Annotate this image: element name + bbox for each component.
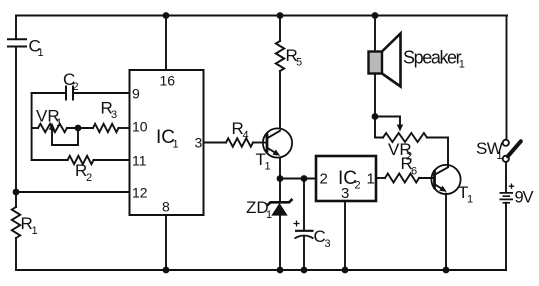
svg-text:1: 1 [266, 209, 272, 221]
switch SW1 [476, 139, 521, 162]
battery 9V [500, 184, 534, 207]
resistor R5 [276, 16, 302, 72]
transistor T2 (labelled T1) [431, 165, 473, 206]
node ZD1 bottom rail [277, 267, 284, 274]
zener diode ZD1 [246, 179, 293, 271]
node VR1 wiper junction [75, 125, 82, 132]
potentiometer VR1 [32, 107, 78, 146]
svg-text:8: 8 [162, 199, 170, 215]
svg-text:1: 1 [173, 139, 179, 151]
svg-text:2: 2 [73, 81, 79, 93]
svg-text:4: 4 [243, 130, 249, 142]
node pin12 / left rail junction [13, 189, 20, 196]
potentiometer VR2 [375, 117, 427, 163]
wire IC1 pin 8 to bottom rail [165, 215, 167, 270]
wire speaker to VR2 junction [374, 74, 376, 117]
timer IC2 [316, 156, 376, 201]
svg-text:12: 12 [132, 185, 148, 201]
wire C2 row (pin 9 net) [32, 92, 130, 94]
wire top supply rail [16, 15, 507, 17]
resistor R1 [12, 207, 38, 238]
svg-text:Speaker: Speaker [403, 48, 462, 68]
node VR2 junction [372, 113, 379, 120]
transistor T1 [256, 128, 293, 172]
svg-text:1: 1 [56, 117, 62, 129]
wire sub-loop left vertical [31, 93, 33, 160]
node IC2 pin3 bottom rail [342, 267, 349, 274]
svg-text:9: 9 [132, 86, 140, 102]
wire IC2 pin 3 to bottom rail [344, 201, 346, 270]
wire T1 emitter down [279, 158, 281, 179]
wire emitter junction to IC2 pin 2 [280, 178, 316, 180]
svg-text:3: 3 [111, 109, 117, 121]
svg-text:1: 1 [459, 59, 465, 71]
svg-text:1: 1 [367, 171, 375, 188]
capacitor C1 [7, 37, 44, 60]
wire R3 to IC1 pin 10 [119, 127, 130, 129]
op-amp/timer IC1 [130, 70, 204, 215]
wire R2 row (pin 11 net) [32, 159, 130, 161]
svg-text:2: 2 [320, 171, 328, 188]
wire IC2 pin 1 to R6 [376, 177, 385, 179]
wire R4 to T1 base [253, 142, 267, 144]
svg-text:1: 1 [32, 225, 38, 237]
node speaker top rail [372, 12, 379, 19]
wire VR2 to T2 collector [427, 138, 448, 167]
node T1 emitter junction [277, 175, 284, 182]
wire R6 to T2 base [419, 177, 435, 179]
wire bottom ground rail [16, 269, 506, 271]
svg-text:9V: 9V [515, 189, 534, 207]
wire left vertical (top rail to C1) [15, 16, 17, 40]
wire IC1 pin 3 to R4 [204, 142, 227, 144]
wire IC1 pin 16 to top rail [165, 16, 167, 71]
svg-text:16: 16 [160, 73, 176, 89]
wire left vertical (C1 to R1) [15, 47, 17, 208]
capacitor C2 [63, 70, 79, 101]
speaker Speaker1 [369, 34, 465, 87]
svg-text:1: 1 [497, 150, 503, 162]
svg-text:5: 5 [296, 57, 302, 69]
resistor R2 [68, 156, 94, 184]
svg-text:3: 3 [195, 135, 203, 151]
wire battery to bottom rail [505, 203, 507, 270]
node T2 emitter bottom rail [443, 267, 450, 274]
svg-text:11: 11 [132, 153, 147, 169]
wire VR1 to R3 [67, 127, 93, 129]
resistor R6 [385, 154, 419, 183]
wire SW1 to battery [505, 162, 507, 192]
resistor R4 [226, 119, 253, 147]
resistor R3 [93, 99, 119, 133]
node pin8 on bottom rail [163, 267, 170, 274]
capacitor C3 (electrolytic) [294, 179, 331, 271]
svg-text:1: 1 [265, 161, 271, 173]
wire left vertical (R1 to bottom rail) [15, 238, 17, 270]
node C3 bottom rail [301, 267, 308, 274]
svg-text:10: 10 [132, 119, 148, 135]
svg-text:2: 2 [86, 172, 92, 184]
node R5 top rail [277, 12, 284, 19]
node C3 top junction [301, 175, 308, 182]
wire right vertical (top rail to SW1) [506, 16, 508, 140]
svg-text:3: 3 [341, 185, 349, 202]
svg-text:1: 1 [38, 47, 44, 59]
svg-text:6: 6 [411, 166, 417, 178]
wire T2 emitter to bottom rail [445, 194, 447, 270]
svg-text:2: 2 [355, 180, 361, 192]
wire pin 12 row [16, 191, 130, 193]
wire top rail to speaker [374, 16, 376, 53]
svg-text:1: 1 [467, 194, 473, 206]
wire R5 to T1 collector [279, 71, 281, 128]
node pin16 on top rail [163, 12, 170, 19]
svg-text:3: 3 [325, 238, 331, 250]
